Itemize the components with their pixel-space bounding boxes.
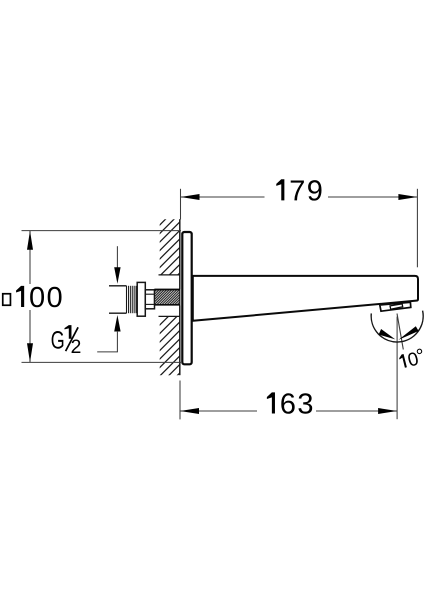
dimension 179 extension line right xyxy=(416,189,418,267)
threaded stud xyxy=(155,290,180,305)
wall face line xyxy=(179,219,181,289)
angle arc xyxy=(371,311,423,342)
wall hatch lower block xyxy=(155,301,184,398)
dimension 163 extension left xyxy=(179,381,181,420)
dimension 100 line xyxy=(29,231,31,284)
dimension 179 extension line left xyxy=(180,189,182,220)
collar xyxy=(137,282,145,316)
wall hole upper edge xyxy=(159,274,180,276)
angle arrow left xyxy=(379,329,396,339)
angle 10 deg text xyxy=(398,348,424,369)
dimension 179 arrow left xyxy=(181,194,200,200)
G half label 1 xyxy=(64,325,71,339)
thread cylinder bottom line xyxy=(109,312,127,314)
dimension 163 arrow right xyxy=(378,408,397,414)
outlet 10 deg tilted line xyxy=(397,314,403,350)
dimension 179 text xyxy=(276,179,321,200)
square symbol xyxy=(3,294,11,306)
escutcheon plate xyxy=(182,232,191,364)
G half leader horizontal xyxy=(97,351,118,353)
dimension 100 arrow bottom xyxy=(27,343,33,362)
spout body xyxy=(193,276,418,321)
plate 100 dim extension top xyxy=(22,230,182,232)
angle arrow right xyxy=(398,326,418,340)
G half top arrow line xyxy=(116,246,118,268)
dimension 163 arrow left xyxy=(180,408,199,414)
wall hole lower edge xyxy=(159,315,180,317)
dimension 179 arrow right xyxy=(398,194,417,200)
hex nut xyxy=(145,290,154,309)
dimension 100 arrow top xyxy=(27,231,33,250)
G half top arrowhead xyxy=(114,267,120,284)
thread cylinder top line xyxy=(109,285,127,287)
outlet centerline / 163 extension right xyxy=(396,317,398,420)
dimension 163 text xyxy=(267,392,312,413)
dimension 100 text xyxy=(16,286,61,307)
thread rings xyxy=(126,286,128,313)
G half label 2 xyxy=(72,340,81,353)
dimension 163 line xyxy=(180,410,257,412)
aerator outer xyxy=(380,302,411,311)
G half bottom arrowhead xyxy=(114,315,120,332)
plate 100 dim extension bottom xyxy=(22,361,182,363)
wall hatch upper block xyxy=(155,201,184,298)
hex facet lines xyxy=(145,293,154,295)
dimension 179 line xyxy=(181,196,265,198)
G half bottom arrow line xyxy=(116,331,118,352)
G half label G xyxy=(52,331,64,349)
aerator inner slot xyxy=(390,304,403,309)
G half label slash xyxy=(66,327,79,351)
